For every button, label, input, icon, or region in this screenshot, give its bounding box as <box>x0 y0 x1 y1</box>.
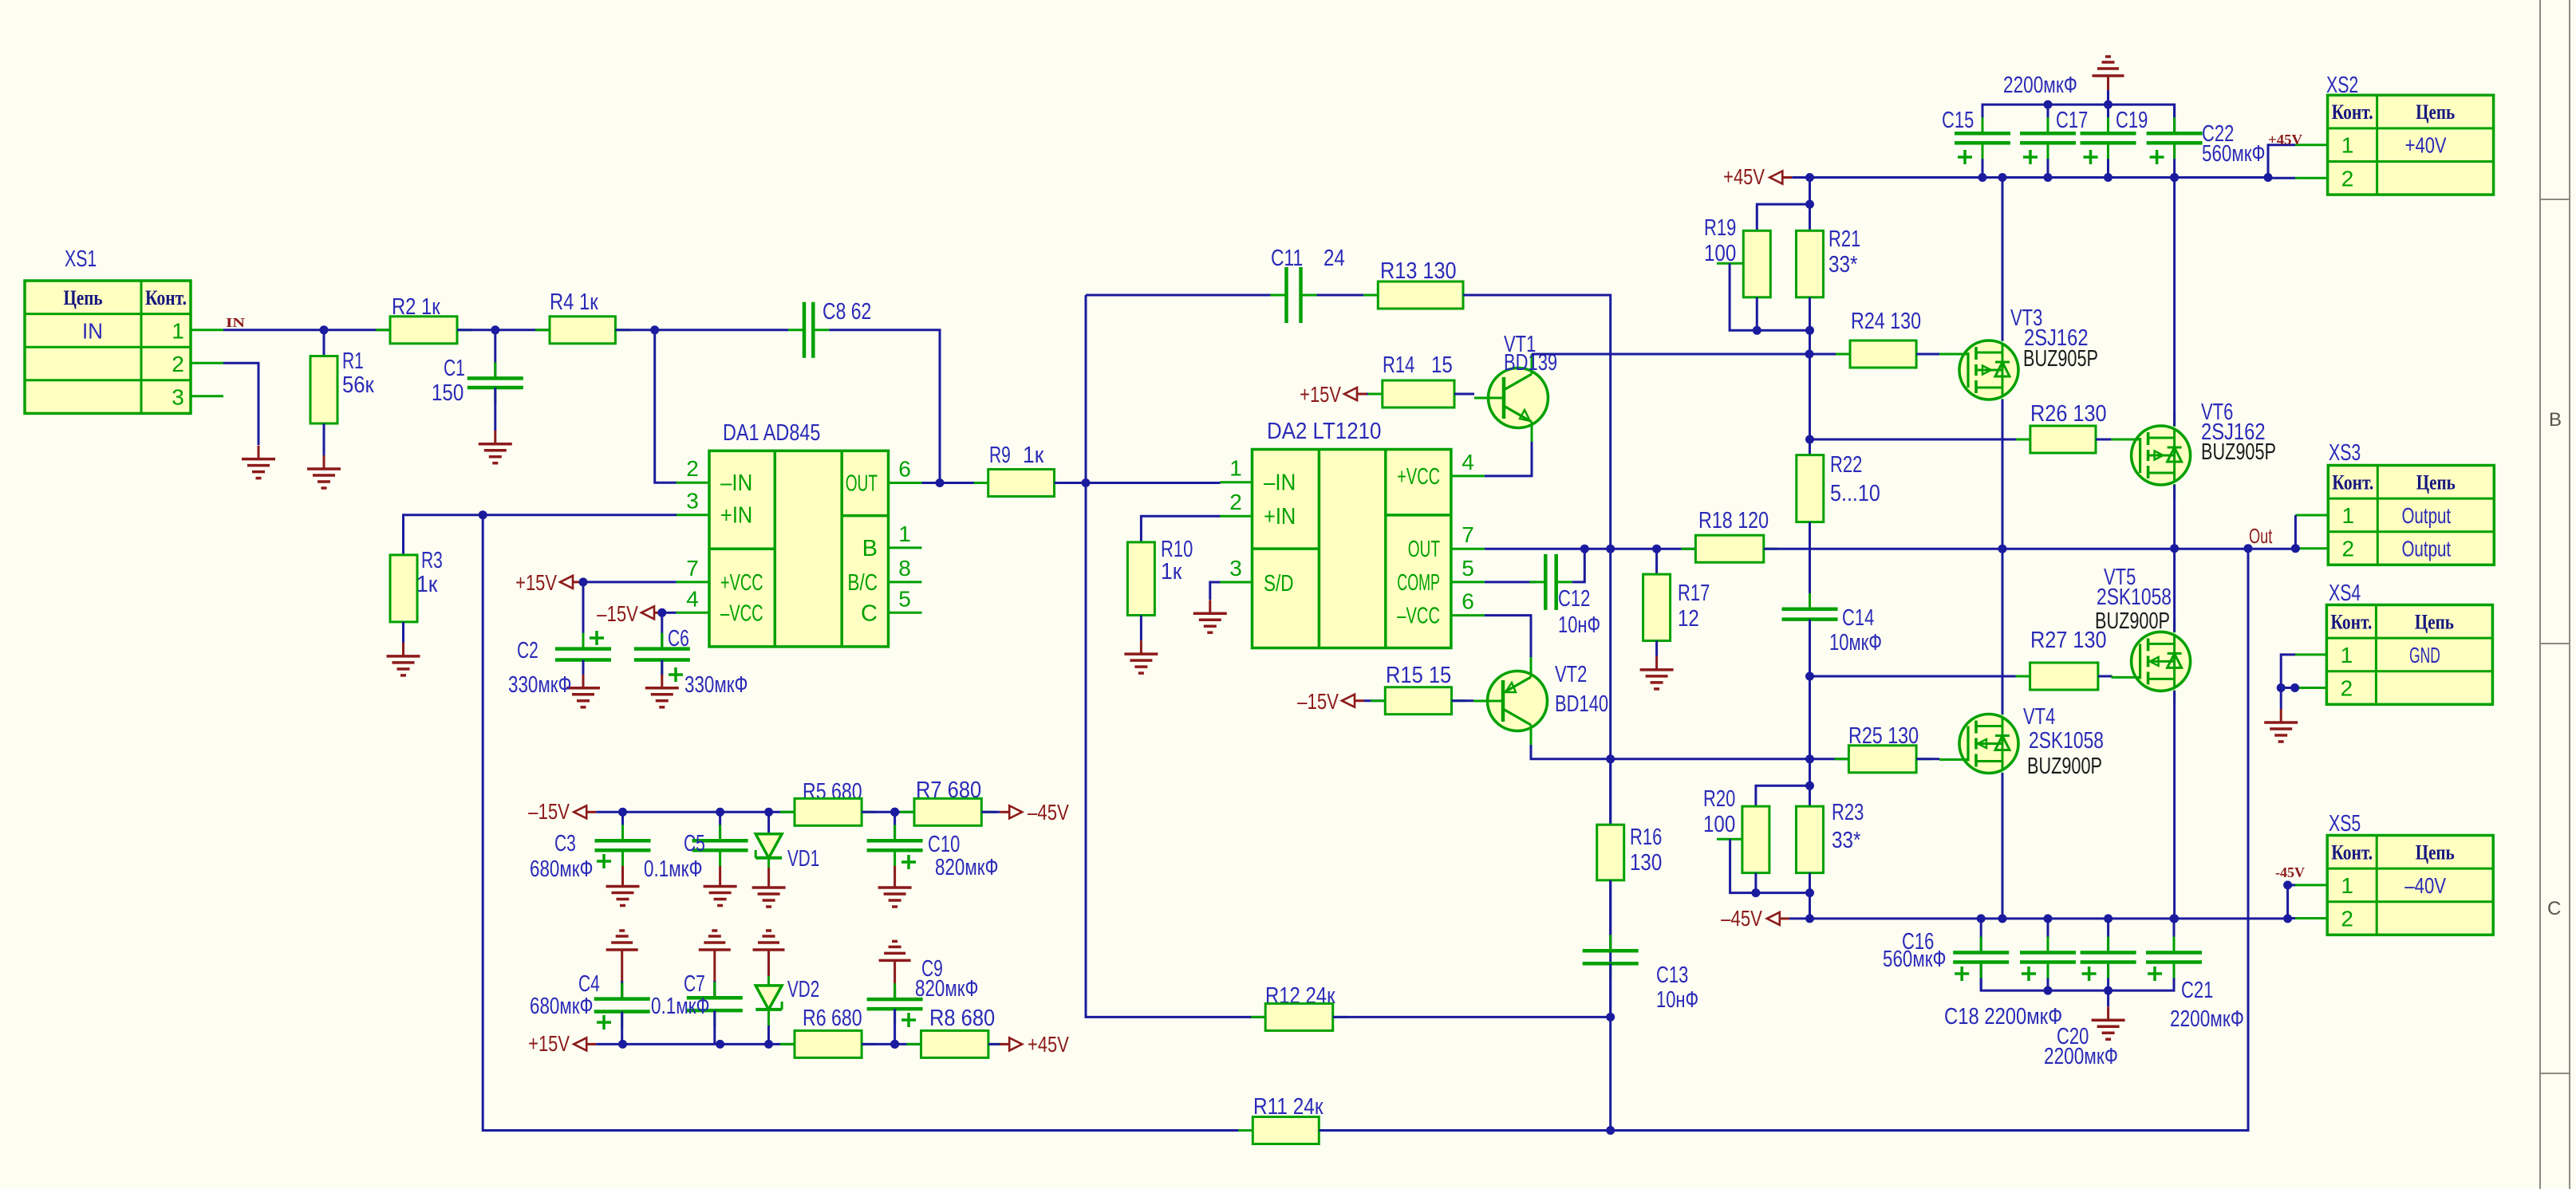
svg-text:R4 1к: R4 1к <box>550 289 598 315</box>
svg-text:1: 1 <box>898 522 911 546</box>
svg-text:1: 1 <box>2341 643 2353 667</box>
svg-text:10мкФ: 10мкФ <box>1829 630 1882 656</box>
svg-text:10нФ: 10нФ <box>1558 612 1600 638</box>
svg-text:R1: R1 <box>342 348 364 374</box>
svg-text:B: B <box>862 536 878 561</box>
svg-text:Цепь: Цепь <box>2416 470 2456 494</box>
svg-text:Конт.: Конт. <box>2332 470 2373 494</box>
svg-text:-45V: -45V <box>2275 864 2305 880</box>
svg-text:C14: C14 <box>1842 605 1874 631</box>
svg-text:BD140: BD140 <box>1555 691 1608 717</box>
svg-text:1: 1 <box>2342 503 2355 528</box>
svg-text:6: 6 <box>898 457 911 482</box>
svg-text:5: 5 <box>1462 556 1474 581</box>
svg-text:IN: IN <box>82 318 103 343</box>
svg-text:+15V: +15V <box>528 1031 570 1056</box>
svg-text:BUZ900P: BUZ900P <box>2027 754 2102 779</box>
svg-text:XS3: XS3 <box>2329 440 2361 466</box>
svg-text:C3: C3 <box>554 831 576 856</box>
svg-text:Цепь: Цепь <box>2416 100 2455 124</box>
svg-text:+IN: +IN <box>1264 504 1296 530</box>
svg-text:C19: C19 <box>2116 108 2148 133</box>
svg-text:2200мкФ: 2200мкФ <box>2170 1006 2244 1032</box>
svg-text:10нФ: 10нФ <box>1656 987 1698 1013</box>
svg-text:R20: R20 <box>1703 786 1735 812</box>
svg-text:330мкФ: 330мкФ <box>508 672 571 698</box>
svg-text:Цепь: Цепь <box>2416 841 2455 864</box>
svg-text:R19: R19 <box>1704 215 1736 241</box>
svg-text:R16: R16 <box>1630 825 1662 850</box>
svg-text:1: 1 <box>1229 456 1242 481</box>
svg-text:1к: 1к <box>1023 443 1044 468</box>
svg-text:+15V: +15V <box>1300 382 1341 407</box>
svg-text:820мкФ: 820мкФ <box>915 976 978 1002</box>
svg-text:C12: C12 <box>1558 586 1590 612</box>
svg-text:BUZ905P: BUZ905P <box>2201 439 2276 465</box>
svg-text:7: 7 <box>686 556 699 581</box>
svg-text:2200мкФ: 2200мкФ <box>2044 1044 2118 1069</box>
svg-text:R15 15: R15 15 <box>1386 663 1451 688</box>
svg-text:C1: C1 <box>444 356 465 381</box>
svg-text:–15V: –15V <box>1297 689 1339 714</box>
svg-text:2: 2 <box>2341 166 2354 191</box>
svg-text:+15V: +15V <box>515 570 557 595</box>
svg-text:2SK1058: 2SK1058 <box>2029 728 2104 754</box>
svg-text:Конт.: Конт. <box>2330 610 2372 633</box>
svg-text:C11: C11 <box>1271 246 1303 271</box>
svg-text:Output: Output <box>2401 537 2451 561</box>
svg-text:–IN: –IN <box>720 470 752 496</box>
svg-text:4: 4 <box>686 586 699 611</box>
svg-text:OUT: OUT <box>846 471 878 497</box>
svg-text:6: 6 <box>1462 589 1474 614</box>
svg-text:3: 3 <box>1229 556 1242 581</box>
svg-text:2: 2 <box>2341 907 2353 931</box>
svg-text:–VCC: –VCC <box>1397 604 1440 629</box>
svg-text:R14: R14 <box>1383 352 1414 378</box>
svg-text:R26 130: R26 130 <box>2030 401 2107 427</box>
svg-text:DA2 LT1210: DA2 LT1210 <box>1267 419 1381 444</box>
svg-text:5...10: 5...10 <box>1830 481 1880 506</box>
svg-text:100: 100 <box>1703 812 1735 837</box>
svg-text:8: 8 <box>898 556 911 581</box>
svg-text:C17: C17 <box>2056 108 2088 133</box>
svg-text:BUZ900P: BUZ900P <box>2095 608 2170 634</box>
svg-text:2: 2 <box>172 352 184 376</box>
svg-text:–IN: –IN <box>1264 470 1296 496</box>
svg-text:–VCC: –VCC <box>720 600 763 626</box>
svg-text:–45V: –45V <box>1721 906 1762 931</box>
svg-text:R21: R21 <box>1828 226 1860 252</box>
svg-text:BUZ905P: BUZ905P <box>2023 346 2098 372</box>
svg-text:1: 1 <box>2341 133 2354 158</box>
svg-text:R3: R3 <box>421 548 443 573</box>
svg-text:Out: Out <box>2249 524 2273 548</box>
svg-text:+IN: +IN <box>720 503 752 529</box>
svg-text:560мкФ: 560мкФ <box>1883 947 1946 972</box>
svg-text:56к: 56к <box>342 372 374 398</box>
svg-text:R22: R22 <box>1830 452 1862 478</box>
svg-text:XS4: XS4 <box>2329 581 2361 606</box>
svg-text:2200мкФ: 2200мкФ <box>2003 73 2077 98</box>
svg-text:1к: 1к <box>416 572 438 597</box>
svg-text:–45V: –45V <box>1028 800 1069 825</box>
svg-text:R18 120: R18 120 <box>1698 508 1769 533</box>
svg-text:2: 2 <box>2342 537 2355 561</box>
svg-text:R24 130: R24 130 <box>1851 309 1921 334</box>
svg-text:560мкФ: 560мкФ <box>2202 141 2265 167</box>
svg-text:1: 1 <box>2341 873 2353 898</box>
svg-text:12: 12 <box>1678 606 1699 632</box>
svg-text:R23: R23 <box>1832 800 1864 825</box>
svg-text:130: 130 <box>1630 850 1662 876</box>
svg-text:3: 3 <box>686 489 699 514</box>
svg-text:2SK1058: 2SK1058 <box>2097 585 2172 610</box>
svg-text:C5: C5 <box>684 831 705 856</box>
svg-text:1к: 1к <box>1161 559 1182 585</box>
svg-text:C6: C6 <box>668 626 689 652</box>
svg-text:C2: C2 <box>517 638 538 663</box>
svg-text:C15: C15 <box>1942 108 1974 133</box>
svg-text:150: 150 <box>432 380 464 406</box>
svg-text:820мкФ: 820мкФ <box>935 855 998 880</box>
svg-text:R6 680: R6 680 <box>803 1006 862 1031</box>
svg-text:Output: Output <box>2401 503 2451 528</box>
svg-text:+40V: +40V <box>2405 133 2447 158</box>
svg-text:VT2: VT2 <box>1555 662 1587 687</box>
svg-text:0.1мкФ: 0.1мкФ <box>651 994 710 1019</box>
svg-text:VD2: VD2 <box>787 977 819 1002</box>
svg-text:–40V: –40V <box>2404 873 2446 898</box>
svg-text:0.1мкФ: 0.1мкФ <box>644 856 703 882</box>
svg-text:IN: IN <box>226 315 246 330</box>
svg-text:C: C <box>861 600 878 626</box>
svg-text:–15V: –15V <box>597 601 638 626</box>
svg-text:VT4: VT4 <box>2023 704 2055 730</box>
svg-text:680мкФ: 680мкФ <box>530 856 593 882</box>
svg-text:+45V: +45V <box>1028 1032 1069 1057</box>
svg-text:+VCC: +VCC <box>1397 464 1440 490</box>
svg-text:1: 1 <box>172 318 184 343</box>
svg-text:B/C: B/C <box>847 570 878 596</box>
svg-text:C18 2200мкФ: C18 2200мкФ <box>1944 1004 2062 1030</box>
svg-text:15: 15 <box>1431 352 1453 378</box>
svg-text:680мкФ: 680мкФ <box>530 994 593 1019</box>
svg-text:GND: GND <box>2409 643 2440 667</box>
svg-text:R8 680: R8 680 <box>929 1006 995 1031</box>
svg-text:24: 24 <box>1324 246 1345 271</box>
svg-text:33*: 33* <box>1832 828 1861 853</box>
svg-text:Цепь: Цепь <box>64 286 103 309</box>
svg-text:+45V: +45V <box>1723 164 1765 189</box>
svg-text:3: 3 <box>172 385 184 410</box>
svg-text:OUT: OUT <box>1408 537 1440 562</box>
svg-text:Конт.: Конт. <box>2332 100 2373 124</box>
svg-text:S/D: S/D <box>1264 571 1294 596</box>
svg-text:–15V: –15V <box>528 799 570 824</box>
svg-text:DA1 AD845: DA1 AD845 <box>723 420 820 446</box>
svg-text:Конт.: Конт. <box>2331 841 2373 864</box>
svg-text:XS1: XS1 <box>65 246 97 272</box>
svg-text:2: 2 <box>686 456 699 481</box>
svg-text:R13 130: R13 130 <box>1380 258 1457 284</box>
svg-text:B: B <box>2549 409 2562 431</box>
svg-text:C: C <box>2547 898 2561 919</box>
svg-text:2: 2 <box>2341 676 2353 701</box>
svg-text:Цепь: Цепь <box>2415 610 2454 633</box>
svg-text:COMP: COMP <box>1397 570 1440 596</box>
svg-text:R9: R9 <box>989 443 1011 468</box>
svg-text:C8 62: C8 62 <box>823 299 871 325</box>
svg-text:4: 4 <box>1462 450 1474 474</box>
svg-text:5: 5 <box>898 586 911 611</box>
svg-text:2: 2 <box>1229 490 1242 514</box>
svg-text:C13: C13 <box>1656 963 1688 988</box>
svg-text:VD1: VD1 <box>787 846 819 872</box>
svg-text:+45V: +45V <box>2268 132 2302 148</box>
svg-text:Конт.: Конт. <box>145 286 187 309</box>
svg-text:330мкФ: 330мкФ <box>684 672 748 698</box>
svg-text:+VCC: +VCC <box>720 570 763 596</box>
svg-text:XS5: XS5 <box>2329 811 2361 837</box>
svg-text:7: 7 <box>1462 522 1474 547</box>
svg-text:C10: C10 <box>928 832 960 857</box>
svg-text:C21: C21 <box>2181 978 2213 1003</box>
svg-text:R17: R17 <box>1678 581 1710 606</box>
svg-text:33*: 33* <box>1828 252 1858 278</box>
